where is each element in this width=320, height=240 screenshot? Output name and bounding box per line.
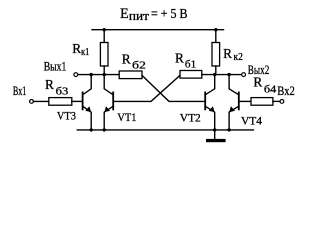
svg-text:R: R (45, 77, 54, 92)
label Rб4 (253, 75, 276, 96)
svg-text:к2: к2 (234, 52, 243, 63)
label VT4 (241, 115, 262, 127)
svg-text:Вых1: Вых1 (44, 59, 67, 73)
node: VT4 collector junction (227, 73, 230, 76)
svg-text:VT1: VT1 (117, 112, 136, 124)
svg-text:б4: б4 (264, 84, 277, 96)
transistor VT4 (229, 75, 239, 130)
label Епит = +5 В (120, 6, 188, 23)
node: VT4 emitter on rail (227, 128, 230, 131)
input terminal Вх2 (280, 100, 284, 104)
resistor Rб4 (251, 98, 273, 106)
wire: Rб4 to Вх2 (273, 100, 280, 102)
input terminal Вх1 (30, 100, 34, 104)
node: VT1 emitter on rail (103, 128, 106, 131)
label Вх1 (13, 84, 27, 98)
svg-text:= + 5 В: = + 5 В (151, 6, 188, 21)
wire: Вх1 to Rб3 (33, 100, 48, 102)
transistor VT1 (104, 75, 113, 130)
resistor Rк1 (100, 30, 108, 75)
wire: output node 1 (collectors VT3/VT1 to Rб2) (78, 74, 120, 76)
label VT3 (57, 111, 76, 123)
resistor Rк2 (212, 30, 220, 75)
svg-text:R: R (175, 51, 184, 66)
ground (206, 130, 226, 143)
label Rб1 (175, 51, 196, 71)
transistor VT3 (83, 75, 92, 130)
node: VT2 emitter / ground stub on rail (213, 128, 216, 131)
label Вх2 (277, 84, 295, 98)
svg-text:VT4: VT4 (241, 115, 262, 127)
node: rail to Rк2 (214, 28, 217, 31)
svg-text:R: R (253, 75, 262, 90)
label Rк2 (223, 46, 243, 63)
svg-text:R: R (223, 46, 232, 61)
svg-text:VT2: VT2 (180, 112, 201, 124)
svg-text:Е: Е (120, 6, 129, 22)
svg-text:R: R (122, 52, 131, 67)
svg-text:б3: б3 (56, 86, 69, 98)
label Вых1 (44, 59, 67, 73)
wire: cross-coupling Rб2 to VT2 base (142, 75, 205, 101)
label VT1 (117, 112, 136, 124)
svg-text:Вх1: Вх1 (13, 84, 27, 98)
node: Rк1/VT1 collector junction (103, 73, 106, 76)
label Rк1 (72, 41, 89, 58)
svg-text:к1: к1 (81, 47, 89, 58)
resistor Rб1 (180, 71, 202, 79)
wire: cross-coupling Rб1 to VT1 base (114, 75, 180, 101)
svg-text:б2: б2 (132, 60, 146, 72)
label Вых2 (248, 62, 269, 77)
wire: Rб3 to VT3 base (72, 100, 82, 102)
label VT2 (180, 112, 201, 124)
resistor Rб2 (119, 71, 142, 79)
transistor VT2 (205, 75, 215, 130)
svg-text:б1: б1 (185, 59, 196, 71)
wire: +5V power rail (92, 29, 224, 31)
label Rб3 (45, 77, 69, 98)
terminal Вых2 (242, 73, 246, 77)
svg-text:Вх2: Вх2 (277, 84, 295, 98)
wire: emitter rail (77, 129, 253, 131)
node: Rк2/VT2 collector junction (213, 73, 216, 76)
svg-text:пит: пит (129, 9, 150, 23)
wire: output node 2 (Rб1 to collectors VT2/VT4) (202, 74, 242, 76)
node: VT3 emitter on rail (90, 128, 93, 131)
svg-text:VT3: VT3 (57, 111, 76, 123)
wire: VT4 base to Rб4 (240, 100, 251, 102)
svg-text:R: R (72, 41, 81, 56)
node: rail to Rк1 (103, 28, 106, 31)
resistor Rб3 (49, 98, 72, 106)
terminal Вых1 (74, 73, 78, 77)
label Rб2 (122, 52, 146, 72)
node: VT3 collector junction (90, 73, 93, 76)
